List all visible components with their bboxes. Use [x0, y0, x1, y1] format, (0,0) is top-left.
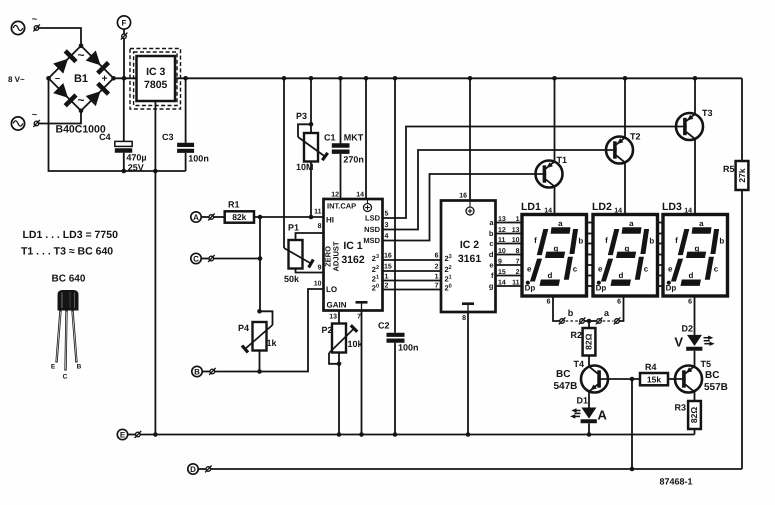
- svg-text:D: D: [190, 465, 196, 474]
- svg-text:82Ω: 82Ω: [584, 333, 594, 349]
- wire +5V to IC2 pin16: [469, 78, 471, 200]
- svg-text:2: 2: [516, 269, 520, 276]
- D rail: [211, 468, 742, 470]
- svg-text:9: 9: [318, 265, 322, 272]
- op-amp/ADC IC1 3162: [314, 192, 392, 321]
- svg-text:e: e: [668, 265, 673, 274]
- svg-text:C3: C3: [162, 132, 174, 142]
- svg-text:A: A: [598, 408, 608, 423]
- svg-text:C: C: [193, 255, 199, 264]
- svg-text:3161: 3161: [458, 253, 482, 265]
- svg-text:10: 10: [512, 237, 520, 244]
- terminal E: [117, 429, 127, 439]
- svg-text:B: B: [77, 364, 82, 371]
- wire LD1 pin6 to switch contact b: [553, 296, 560, 321]
- svg-text:C1: C1: [324, 133, 336, 143]
- svg-text:~: ~: [32, 14, 37, 24]
- svg-text:87468-1: 87468-1: [660, 477, 693, 487]
- svg-text:MSD: MSD: [363, 236, 380, 245]
- svg-text:R5: R5: [723, 164, 735, 174]
- svg-text:d: d: [689, 271, 694, 280]
- wire base node down to D terminal rail: [631, 379, 633, 469]
- svg-text:MKT: MKT: [344, 133, 364, 143]
- wire NSD pin3 to T2 base: [383, 150, 607, 230]
- resistor R2 82ohm: [570, 321, 595, 356]
- svg-text:a: a: [558, 219, 563, 228]
- svg-text:~: ~: [32, 110, 37, 120]
- svg-text:10: 10: [314, 281, 322, 288]
- svg-text:82k: 82k: [232, 212, 246, 222]
- diode (left-top edge): [53, 59, 68, 74]
- resistor R4 15k: [640, 362, 668, 385]
- wire AC1 to bridge top: [39, 28, 81, 46]
- svg-text:P1: P1: [288, 223, 299, 233]
- wire +5V to IC1 pin14: [365, 78, 367, 199]
- svg-text:ADJUST: ADJUST: [332, 241, 341, 271]
- switch contact (a right): [615, 319, 620, 324]
- wire IC3 ground pin down through psu rail to E rail: [154, 101, 156, 435]
- svg-text:2: 2: [385, 283, 389, 290]
- svg-text:11: 11: [512, 280, 520, 287]
- AC source 1 (upper transformer terminal): [11, 14, 40, 35]
- svg-text:6: 6: [547, 299, 551, 306]
- capacitor C2 100n: [378, 76, 419, 435]
- svg-text:g: g: [554, 244, 559, 253]
- svg-text:T3: T3: [702, 108, 713, 118]
- wire LSD pin5 to T3 base: [383, 127, 677, 219]
- +5V top rail: [175, 77, 742, 79]
- svg-text:d: d: [548, 271, 553, 280]
- capacitor C4 470u/25V: [99, 78, 146, 172]
- wire R4 to T5 base: [668, 378, 675, 380]
- wire P4 bottom to B line: [259, 351, 261, 372]
- resistor R1 82k: [214, 200, 254, 223]
- wire R1 to IC1 pin11 (HI): [254, 216, 324, 218]
- svg-text:R3: R3: [674, 403, 686, 413]
- wire T3 collector to display anode pin14: [694, 139, 696, 215]
- svg-text:b: b: [649, 237, 654, 246]
- svg-text:f: f: [605, 236, 608, 245]
- svg-text:b: b: [719, 237, 724, 246]
- wire MSD pin4 to T1 base: [383, 174, 536, 241]
- terminal F: [117, 16, 130, 40]
- svg-text:P2: P2: [322, 325, 333, 335]
- svg-text:8: 8: [462, 315, 466, 322]
- svg-text:14: 14: [614, 208, 622, 215]
- svg-text:V: V: [674, 335, 683, 350]
- svg-text:8 V~: 8 V~: [8, 75, 25, 84]
- svg-text:5: 5: [385, 211, 389, 218]
- svg-text:1: 1: [516, 216, 520, 223]
- svg-text:547B: 547B: [554, 381, 578, 392]
- svg-text:LD3: LD3: [662, 201, 682, 213]
- svg-text:B: B: [194, 368, 200, 377]
- LED D2: [682, 296, 703, 367]
- svg-text:B1: B1: [74, 73, 88, 85]
- svg-text:C2: C2: [378, 321, 390, 331]
- resistor R5 27k: [723, 78, 748, 190]
- wire P1 bottom to IC1 pin9: [296, 269, 324, 273]
- svg-text:R4: R4: [645, 362, 657, 372]
- svg-text:A: A: [193, 213, 199, 222]
- svg-text:b: b: [568, 308, 574, 318]
- svg-text:a: a: [629, 219, 634, 228]
- svg-text:d: d: [489, 250, 494, 259]
- svg-text:8: 8: [516, 248, 520, 255]
- svg-text:4: 4: [385, 233, 389, 240]
- svg-text:BC: BC: [705, 370, 719, 381]
- svg-text:a: a: [699, 219, 704, 228]
- wire P2 bottom to E rail: [338, 353, 340, 435]
- wire P3 bottom to HI node: [310, 162, 312, 218]
- display driver IC2 3161: [435, 193, 506, 323]
- svg-text:T1 . . . T3 ≈ BC 640: T1 . . . T3 ≈ BC 640: [21, 246, 113, 258]
- D1 light arrows: [570, 408, 580, 418]
- svg-text:+: +: [102, 74, 108, 85]
- D2 light arrows: [704, 336, 715, 346]
- svg-text:R2: R2: [570, 330, 582, 340]
- svg-text:3162: 3162: [341, 254, 365, 266]
- diode (bottom-right edge): [86, 91, 101, 106]
- wire BCD bus 2^0: [383, 289, 442, 291]
- svg-text:D1: D1: [577, 396, 589, 406]
- switch contact (a left): [597, 319, 602, 324]
- switch contact (b left): [560, 319, 565, 324]
- diode (left-bottom edge): [53, 83, 68, 98]
- segment bus LD2 to LD3: [657, 222, 663, 224]
- svg-text:25V: 25V: [128, 163, 144, 173]
- terminal A: [191, 212, 201, 222]
- svg-text:f: f: [534, 236, 537, 245]
- svg-text:F: F: [122, 19, 127, 28]
- svg-text:3: 3: [385, 222, 389, 229]
- wire R5 bottom to D rail: [741, 190, 743, 469]
- wiper loop P3: [298, 124, 311, 137]
- svg-text:c: c: [489, 239, 493, 248]
- wire +5V to T3 emitter: [694, 78, 696, 114]
- svg-text:R1: R1: [228, 200, 240, 210]
- svg-text:Dp: Dp: [596, 283, 607, 292]
- svg-text:15k: 15k: [647, 374, 661, 384]
- segment bus IC2 to LD1 (pins a-g): [496, 222, 523, 224]
- svg-text:470µ: 470µ: [126, 153, 146, 163]
- svg-text:IC 2: IC 2: [460, 239, 479, 251]
- svg-text:g: g: [695, 244, 700, 253]
- svg-text:b: b: [489, 229, 494, 238]
- svg-text:13: 13: [512, 227, 520, 234]
- svg-text:14: 14: [544, 208, 552, 215]
- svg-text:6: 6: [688, 299, 692, 306]
- 7-segment display LD2 7750: [592, 201, 658, 306]
- wire IC1 pin7 to E rail: [361, 311, 363, 435]
- svg-text:LSD: LSD: [365, 214, 381, 223]
- svg-text:14: 14: [356, 192, 364, 199]
- svg-text:c: c: [573, 265, 578, 274]
- segment bus LD1 to LD2: [587, 222, 594, 224]
- svg-text:82Ω: 82Ω: [689, 407, 699, 423]
- 7-segment display LD3 7750: [662, 201, 728, 306]
- svg-text:P4: P4: [238, 323, 249, 333]
- wire T1 collector to display anode pin14: [554, 186, 556, 214]
- svg-text:BC 640: BC 640: [52, 274, 86, 285]
- svg-text:6: 6: [617, 299, 621, 306]
- svg-text:270n: 270n: [343, 155, 364, 165]
- transistor T3 BC640: [676, 113, 703, 140]
- svg-text:E: E: [51, 364, 56, 371]
- svg-text:c: c: [714, 265, 719, 274]
- svg-text:100n: 100n: [188, 154, 209, 164]
- wire IC2 pin8 to E rail: [467, 312, 469, 435]
- svg-text:1: 1: [435, 274, 439, 281]
- transistor T2 BC640: [606, 137, 633, 164]
- svg-text:T1: T1: [557, 155, 568, 165]
- wire T2 collector to display anode pin14: [624, 162, 626, 214]
- svg-text:7: 7: [357, 314, 361, 321]
- wiper loop P4: [260, 311, 273, 325]
- svg-text:d: d: [619, 271, 624, 280]
- svg-text:~: ~: [77, 93, 84, 107]
- svg-text:C4: C4: [99, 132, 111, 142]
- capacitor C3 100n: [162, 78, 209, 171]
- svg-text:P3: P3: [296, 111, 307, 121]
- wire contact a to LD2 pin6: [619, 296, 623, 321]
- AC source 2 (lower transformer terminal): [11, 110, 40, 131]
- svg-text:7805: 7805: [144, 79, 168, 91]
- svg-text:1k: 1k: [267, 338, 278, 348]
- svg-text:IC 3: IC 3: [146, 66, 165, 78]
- svg-text:E: E: [120, 431, 126, 440]
- wire R3 bottom to E rail: [694, 429, 696, 435]
- svg-text:12: 12: [331, 192, 339, 199]
- capacitor C1 270n MKT: [324, 76, 364, 199]
- svg-text:LD1 . . . LD3 = 7750: LD1 . . . LD3 = 7750: [23, 229, 119, 241]
- svg-text:27k: 27k: [737, 168, 747, 182]
- svg-text:7: 7: [516, 259, 520, 266]
- wire AC2 to bridge bottom: [39, 111, 81, 124]
- svg-text:16: 16: [459, 193, 467, 200]
- svg-text:8: 8: [318, 223, 322, 230]
- svg-text:T5: T5: [701, 359, 712, 369]
- svg-text:Dp: Dp: [666, 283, 677, 292]
- svg-text:14: 14: [684, 208, 692, 215]
- svg-text:16: 16: [384, 253, 392, 260]
- LED D1: [577, 391, 597, 434]
- svg-text:T4: T4: [574, 359, 585, 369]
- wire BCD bus 2^3: [383, 259, 442, 261]
- svg-text:HI: HI: [326, 216, 334, 225]
- svg-text:D2: D2: [682, 324, 694, 334]
- wire BCD bus 2^2: [383, 270, 442, 272]
- svg-text:IC 1: IC 1: [343, 240, 362, 252]
- svg-text:f: f: [675, 236, 678, 245]
- resistor R3 82ohm: [674, 391, 700, 429]
- wire +5V to T1 emitter: [554, 78, 556, 161]
- transistor T1 BC640: [536, 161, 563, 188]
- svg-text:b: b: [578, 237, 583, 246]
- svg-text:g: g: [625, 244, 630, 253]
- svg-text:−: −: [55, 74, 60, 84]
- diode (top-right edge): [86, 51, 101, 66]
- svg-text:T2: T2: [630, 132, 641, 142]
- svg-text:11: 11: [314, 209, 322, 216]
- svg-text:Dp: Dp: [525, 283, 536, 292]
- svg-text:NSD: NSD: [364, 225, 380, 234]
- svg-text:GAIN: GAIN: [327, 301, 347, 310]
- 7-segment display LD1 7750: [521, 201, 587, 306]
- svg-text:LO: LO: [326, 285, 337, 294]
- BC640 package drawing: [51, 274, 86, 381]
- svg-text:557B: 557B: [704, 382, 728, 393]
- wire +5V to T2 emitter: [624, 78, 626, 137]
- preset P2 10k (gain): [338, 311, 340, 324]
- svg-text:100n: 100n: [398, 343, 419, 353]
- wire BCD bus 2^1: [383, 280, 442, 282]
- svg-text:2: 2: [435, 264, 439, 271]
- terminal D: [188, 464, 198, 474]
- wire C to node: [214, 258, 260, 260]
- svg-text:g: g: [489, 282, 494, 291]
- svg-text:INT.CAP: INT.CAP: [327, 202, 356, 211]
- svg-text:15: 15: [384, 264, 392, 271]
- terminal C: [191, 253, 201, 263]
- preset P3 10M: [310, 78, 312, 133]
- wire bridge minus to psu 0V rail: [49, 78, 186, 171]
- wire T4 base to R4 node: [608, 378, 640, 380]
- wire F down to supply node: [123, 39, 125, 79]
- E rail (0V): [140, 434, 694, 436]
- svg-text:6: 6: [435, 253, 439, 260]
- wire node A/C down to P4: [259, 217, 261, 311]
- svg-text:e: e: [489, 261, 493, 270]
- wire switch common node: [584, 320, 596, 322]
- svg-text:BC: BC: [556, 369, 570, 380]
- svg-text:c: c: [644, 265, 649, 274]
- wire IC1 pin8 to P1 top: [296, 233, 324, 240]
- svg-text:LD2: LD2: [592, 201, 612, 213]
- svg-text:13: 13: [329, 314, 337, 321]
- transistor T4 BC547B: [581, 366, 608, 393]
- svg-text:C: C: [63, 374, 68, 381]
- wiper loop P2: [329, 353, 339, 364]
- transistor T5 BC557B: [675, 366, 702, 393]
- svg-text:e: e: [598, 265, 603, 274]
- wire +5V to P1 wiper: [283, 78, 285, 248]
- terminal B: [192, 366, 202, 376]
- svg-text:e: e: [527, 265, 532, 274]
- bridge rectifier B1: [46, 44, 116, 114]
- wire B line to IC1 pin10 (LO): [215, 289, 324, 372]
- switch contact (b right): [580, 319, 585, 324]
- preset P1 50k (zero adjust): [284, 223, 313, 285]
- svg-text:7: 7: [435, 283, 439, 290]
- svg-text:50k: 50k: [284, 274, 300, 284]
- svg-text:LD1: LD1: [521, 201, 541, 213]
- wire R2 to T4 collector: [588, 356, 590, 367]
- svg-text:1: 1: [385, 274, 389, 281]
- wire bridge plus to IC3 input: [114, 77, 137, 79]
- preset P4 1k: [238, 322, 278, 352]
- voltage regulator IC3 7805 (dashed outline): [130, 49, 181, 110]
- svg-text:~: ~: [77, 48, 84, 62]
